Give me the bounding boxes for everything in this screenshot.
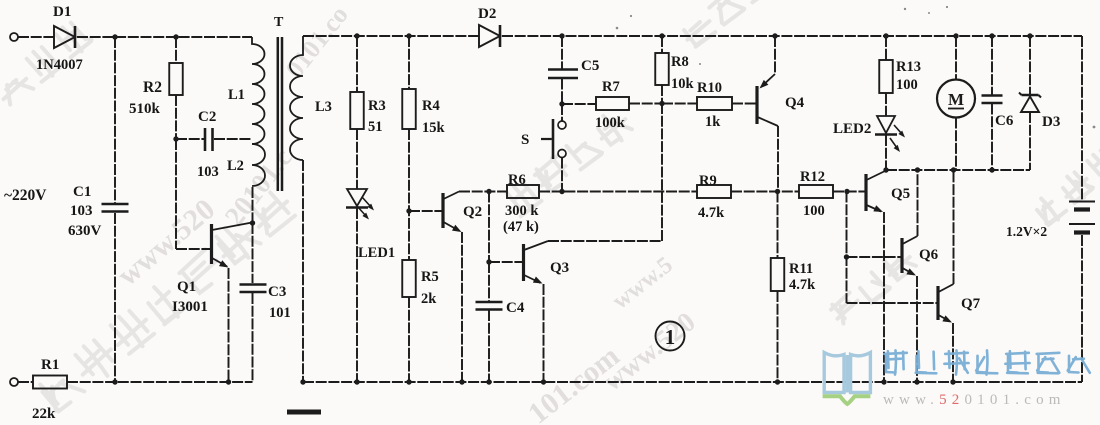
svg-text:Q2: Q2 [463, 204, 482, 220]
transistor Q1 [212, 223, 253, 268]
wire R13 top [885, 36, 887, 60]
wire C4 column [488, 262, 490, 301]
wire base bus vertical [846, 192, 848, 304]
junction R4 top [406, 33, 411, 38]
resistor R6 [507, 185, 539, 198]
junction C1 top [112, 34, 117, 39]
LED LED2 [875, 116, 905, 152]
wire bottom-left rail [67, 381, 253, 383]
junction Q4 collector node [775, 189, 780, 194]
input terminal top [10, 33, 18, 41]
inductor L3 secondary winding [290, 36, 303, 160]
wire Q6 collector column [917, 170, 919, 236]
svg-text:T: T [274, 15, 284, 30]
capacitor C3 [240, 285, 267, 293]
svg-text:4.7k: 4.7k [789, 277, 816, 293]
svg-text:~220V: ~220V [4, 187, 47, 204]
junction S bottom node [559, 189, 564, 194]
wire R12 to Q5 base [833, 191, 865, 193]
watermark logo chinese text [884, 350, 1090, 374]
wire Q3 base column [488, 192, 490, 263]
inductor L2 primary winding [252, 144, 265, 186]
svg-text:15k: 15k [422, 120, 446, 136]
wire LED2 to bus [885, 135, 887, 170]
wire terminal to R1 [18, 381, 33, 383]
svg-text:Q3: Q3 [550, 260, 569, 276]
svg-text:103: 103 [197, 164, 219, 180]
resistor R11 [771, 258, 785, 291]
resistor R10 [697, 97, 732, 110]
resistor R13 [879, 60, 893, 93]
resistor R1 [33, 376, 67, 389]
svg-text:L1: L1 [228, 87, 245, 103]
svg-text:www.520: www.520 [111, 193, 221, 293]
wire R3 to LED1 [356, 129, 358, 189]
svg-text:M: M [948, 90, 964, 109]
junction C5 top [559, 33, 564, 38]
capacitor C1 [102, 204, 129, 212]
wire right edge bottom [1081, 235, 1083, 382]
wire R8 bottom [661, 85, 663, 104]
junction C4 top node [486, 259, 491, 264]
junction R3 top [354, 33, 359, 38]
wire L3 bottom to ground rail [302, 160, 304, 382]
svg-text:2k: 2k [421, 291, 437, 307]
wire R2 to C2 junction [175, 95, 177, 139]
junction C6 top [989, 33, 994, 38]
svg-text:Q1: Q1 [177, 279, 196, 295]
wire R13 to LED2 [885, 93, 887, 116]
resistor R8 [655, 53, 669, 85]
wire Q2 base [409, 210, 442, 212]
svg-text:R4: R4 [422, 98, 440, 114]
wire Q6 emitter column [916, 276, 918, 382]
junction Q5 base node [844, 189, 849, 194]
svg-text:R11: R11 [789, 261, 813, 277]
resistor R2 [169, 63, 183, 95]
resistor R4 [402, 89, 416, 129]
watermark logo book icon [824, 353, 870, 393]
svg-text:R13: R13 [896, 59, 921, 75]
svg-text:R8: R8 [671, 54, 689, 70]
junction R11 bottom [775, 379, 780, 384]
resistor R7 [596, 97, 629, 110]
junction Q2 emitter bottom [459, 379, 464, 384]
junction motor top [953, 33, 958, 38]
svg-text:C1: C1 [73, 184, 91, 200]
junction Q6 collector node [915, 167, 920, 172]
wire R4 top [408, 36, 410, 89]
svg-text:C5: C5 [581, 58, 599, 74]
wire C6 top [991, 36, 993, 95]
svg-text:R9: R9 [699, 173, 717, 189]
svg-text:(47 k): (47 k) [503, 219, 539, 235]
svg-text:1.2V×2: 1.2V×2 [1006, 224, 1047, 239]
wire top-left rail to D1 [18, 36, 54, 38]
capacitor C4 [476, 302, 503, 310]
junction secondary ground node [300, 379, 305, 384]
svg-text:R6: R6 [508, 172, 526, 188]
wire C6 bottom [991, 104, 993, 171]
capacitor C5 [548, 70, 578, 79]
wire secondary top rail left [303, 35, 479, 37]
svg-text:R10: R10 [697, 80, 722, 96]
wire Q2 collector rail [459, 191, 507, 193]
ground [287, 410, 321, 415]
resistor R12 [799, 185, 833, 198]
wire right edge top [1081, 36, 1083, 200]
wire Q5 emitter column [883, 212, 885, 382]
svg-text:100: 100 [803, 203, 825, 219]
junction C4 bottom [486, 379, 491, 384]
junction R13 top [883, 33, 888, 38]
wire R6 to R9 rail [539, 191, 697, 193]
wire D3 bottom [1029, 112, 1031, 170]
wire Q3 base [489, 261, 522, 263]
junction Q3 emitter bottom [541, 379, 546, 384]
svg-text:22k: 22k [32, 406, 56, 422]
svg-text:101: 101 [269, 305, 291, 321]
capacitor C6 [982, 96, 1003, 104]
wire R7 to node [629, 103, 662, 105]
wire Q1 emitter column [228, 268, 230, 382]
battery 1.2Vx2 [1069, 202, 1095, 233]
wire C5 top [561, 36, 563, 69]
wire Q3 collector link [548, 104, 662, 242]
svg-text:L3: L3 [315, 99, 332, 115]
svg-text:1N4007: 1N4007 [36, 57, 83, 73]
wire R2 top [175, 37, 177, 63]
transistor Q2 [443, 192, 462, 233]
resistor R5 [402, 260, 416, 297]
svg-text:20101.c: 20101.c [219, 143, 298, 233]
wire R11 top [777, 192, 779, 259]
wire Q4 collector column [777, 126, 779, 192]
svg-text:D3: D3 [1042, 114, 1060, 130]
transistor Q6 [902, 236, 918, 276]
wire Q2 emitter column [461, 232, 463, 382]
wire R11 bottom [777, 291, 779, 382]
svg-text:630V: 630V [68, 223, 102, 239]
wire R9 to R12 [731, 191, 799, 193]
switch S [541, 104, 566, 192]
wire C1 column upper [114, 37, 116, 203]
svg-text:LED1: LED1 [358, 245, 395, 261]
motor M [937, 80, 975, 118]
svg-text:510k: 510k [129, 101, 161, 117]
svg-text:10k: 10k [671, 76, 695, 92]
wire C5 bottom [561, 79, 563, 105]
wire Q3 emitter column [543, 284, 545, 382]
transistor Q4 [757, 36, 778, 126]
svg-text:100k: 100k [595, 115, 626, 131]
junction Q2 base [406, 208, 411, 213]
junction motor bottom node [951, 167, 956, 172]
junction Q1 emitter bottom [226, 379, 231, 384]
svg-text:300 k: 300 k [505, 203, 539, 219]
LED LED1 [346, 189, 374, 220]
junction Q5 emitter bottom [881, 379, 886, 384]
wire LED2 bus rail [886, 169, 1030, 171]
svg-text:LED2: LED2 [833, 121, 871, 137]
svg-text:4.7k: 4.7k [698, 205, 725, 221]
wire R4 to Q2 base node [408, 129, 410, 260]
svg-text:Q4: Q4 [785, 95, 805, 111]
junction R2-C2 [173, 136, 178, 141]
svg-text:www.520101.com: www.520101.com [883, 392, 1066, 408]
junction Q6 base node [844, 254, 849, 259]
wire R7 left [562, 103, 596, 105]
wire Q7 emitter column [952, 323, 954, 382]
svg-text:C6: C6 [995, 113, 1014, 129]
junction LED1 bottom [354, 379, 359, 384]
wire C2 right [214, 138, 252, 140]
wire R8 top [661, 36, 663, 53]
svg-text:R2: R2 [143, 79, 162, 96]
transformer T core [278, 37, 282, 191]
junction D3 top [1027, 33, 1032, 38]
junction Q3 base column top [486, 189, 491, 194]
svg-text:C3: C3 [268, 284, 286, 300]
svg-text:I3001: I3001 [172, 299, 208, 315]
wire R10 to Q4 base [732, 103, 756, 105]
wire D3 top [1029, 36, 1031, 94]
svg-text:D2: D2 [478, 6, 496, 22]
svg-text:R12: R12 [800, 169, 825, 185]
wire LED1 to bottom rail [356, 208, 358, 382]
junction Q6 emitter bottom [914, 379, 919, 384]
svg-text:R3: R3 [368, 98, 386, 114]
svg-text:R7: R7 [602, 79, 620, 95]
wire D1 to transformer [77, 36, 252, 38]
inductor L1 primary winding [252, 37, 265, 144]
junction C6 bottom node [989, 167, 994, 172]
svg-text:1k: 1k [705, 114, 721, 130]
wire Q1 base column [176, 139, 210, 249]
svg-text:C4: C4 [506, 300, 525, 316]
transistor Q5 [866, 171, 886, 213]
wire node to R10 [662, 103, 697, 105]
wire Q7 collector column [953, 170, 955, 284]
junction Q1 collector [250, 220, 255, 225]
scan specks [616, 6, 1096, 128]
wire Q7 base [847, 302, 937, 304]
wire C1 column lower [114, 213, 116, 382]
junction R2 top [173, 34, 178, 39]
wire C2 left [176, 138, 204, 140]
wire motor bottom [955, 118, 957, 171]
input terminal bottom [10, 378, 18, 386]
diode D3 [1019, 93, 1041, 113]
junction R7-R8-R10 node [659, 101, 664, 106]
junction C5-R7-S node [559, 101, 564, 106]
svg-text:L2: L2 [227, 158, 244, 174]
svg-text:D1: D1 [53, 4, 71, 20]
svg-text:S: S [521, 132, 529, 148]
svg-text:www.5: www.5 [608, 252, 678, 315]
svg-text:R5: R5 [421, 269, 439, 285]
junction Q7 emitter bottom [950, 379, 955, 384]
wire motor top [955, 36, 957, 80]
junction C1 bottom [112, 379, 117, 384]
wire C3 to bottom rail [252, 293, 254, 382]
resistor R9 [697, 185, 731, 198]
wire L2 to collector to C3 [252, 187, 254, 283]
wire secondary bottom rail [303, 381, 1082, 383]
capacitor C2 [205, 128, 213, 151]
junction Q4 emitter top [772, 33, 777, 38]
junction R5 bottom [406, 379, 411, 384]
wire R5 to bottom rail [408, 297, 410, 382]
wire R3 top [356, 36, 358, 92]
wire Q6 base [847, 256, 901, 258]
transistor Q7 [938, 284, 954, 323]
svg-text:C2: C2 [198, 109, 216, 125]
diode D1 [54, 26, 75, 48]
circled number 1 [656, 322, 685, 351]
wire C4 to bottom rail [488, 310, 490, 382]
svg-text:Q5: Q5 [891, 186, 910, 202]
svg-text:51: 51 [368, 119, 383, 135]
svg-text:103: 103 [70, 203, 93, 219]
svg-text:R1: R1 [41, 357, 59, 373]
svg-text:1: 1 [665, 325, 676, 349]
transistor Q3 [524, 241, 549, 284]
svg-text:Q6: Q6 [919, 247, 939, 263]
resistor R3 [350, 92, 364, 129]
svg-text:100: 100 [896, 77, 918, 93]
junction R8 top [659, 33, 664, 38]
junction LED2 bottom node [883, 167, 888, 172]
wire top rail D2 to right edge [502, 35, 1082, 37]
svg-text:Q7: Q7 [961, 296, 981, 312]
diode D2 [479, 25, 500, 47]
